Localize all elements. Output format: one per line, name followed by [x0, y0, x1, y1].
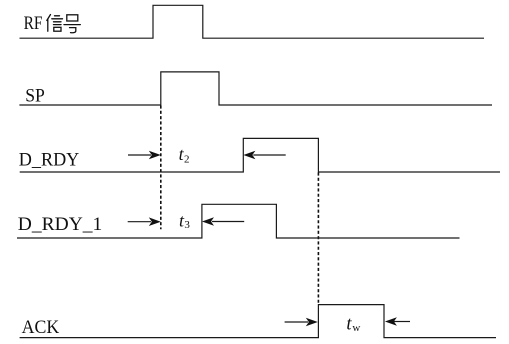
arrow t3 right (pointing left at D_RDY_1 rising edge): [202, 217, 244, 226]
label tw: [346, 314, 360, 334]
dashed line below D_RDY falling edge: [317, 173, 319, 305]
glyph 信 (hand drawn): [47, 15, 63, 32]
label t2: [179, 144, 190, 165]
svg-text:ACK: ACK: [22, 317, 60, 338]
arrow t2 right (pointing left at D_RDY rising edge): [243, 151, 285, 160]
arrow tw right (pointing left at ACK falling edge): [385, 317, 410, 326]
D_RDY signal waveform: [20, 138, 500, 172]
glyph 号 (hand drawn): [64, 15, 80, 33]
svg-text:w: w: [352, 322, 360, 334]
arrow t2 left (pointing right at dashed line): [128, 151, 161, 160]
label t3: [179, 210, 190, 231]
ACK signal waveform: [20, 305, 496, 338]
RF signal waveform: [20, 5, 485, 38]
arrow tw left (pointing right at ACK rising edge): [285, 318, 318, 327]
D_RDY_1 signal waveform: [17, 204, 460, 238]
svg-text:D_RDY: D_RDY: [19, 150, 80, 171]
svg-text:2: 2: [184, 153, 190, 165]
svg-text:D_RDY_1: D_RDY_1: [18, 214, 103, 235]
arrow t3 left (pointing right at dashed line): [128, 217, 161, 226]
SP signal waveform: [19, 72, 492, 105]
svg-text:SP: SP: [25, 86, 45, 107]
dashed line below SP rising edge: [160, 106, 162, 230]
svg-text:RF: RF: [24, 13, 43, 34]
svg-text:3: 3: [184, 219, 190, 231]
